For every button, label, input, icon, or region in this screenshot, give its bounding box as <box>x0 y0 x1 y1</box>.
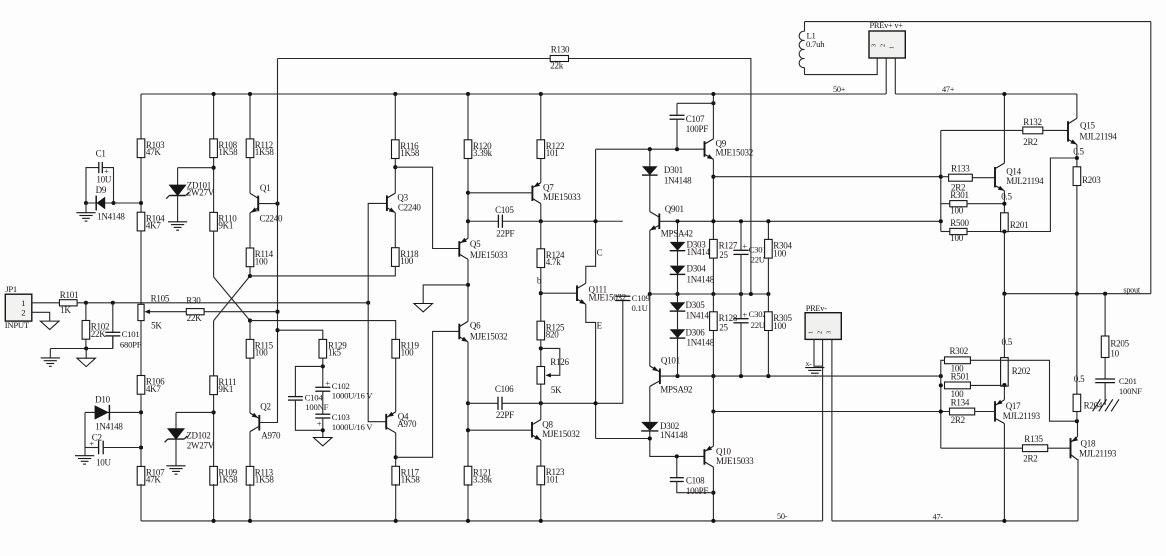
svg-text:3: 3 <box>826 331 833 334</box>
svg-text:47K: 47K <box>146 475 162 485</box>
svg-text:101: 101 <box>546 474 559 484</box>
wire L1 bottom to PREv+ pin1 <box>805 58 878 75</box>
capacitor C1 <box>86 168 99 203</box>
wire R132 to Q15 base <box>1043 129 1068 131</box>
resistor R116 <box>392 140 400 159</box>
node junction bottom rail Q10 <box>711 519 715 523</box>
node junction Q10 emitter wire <box>711 409 715 413</box>
svg-text:INPUT: INPUT <box>5 320 30 330</box>
resistor R123 <box>537 466 545 485</box>
wire ground tap <box>423 285 468 304</box>
wire positive rail 47+ segment y=94 <box>895 93 1077 95</box>
wire R135 feed from left column <box>941 447 1023 449</box>
wire R127 to mid <box>712 258 714 294</box>
svg-text:C301: C301 <box>749 244 767 254</box>
svg-text:C107: C107 <box>686 114 705 124</box>
node junction R129 wire <box>275 328 279 332</box>
resistor R115 <box>246 339 254 358</box>
svg-text:1K58: 1K58 <box>255 147 275 157</box>
node junction bottom rail Q17 <box>1002 519 1006 523</box>
wire D302 to Q10 base corner <box>650 431 705 457</box>
svg-text:1k5: 1k5 <box>328 348 342 358</box>
wire R123 to bottom rail <box>540 484 542 521</box>
node junction R102 ground <box>84 346 88 350</box>
svg-text:E: E <box>597 320 603 330</box>
wire crossover diagonal left-to-right <box>214 277 250 321</box>
wire lower driver rail y=411.5 <box>713 411 949 413</box>
svg-text:C201: C201 <box>1119 376 1137 386</box>
svg-text:1000U/16 V: 1000U/16 V <box>332 390 374 400</box>
resistor R135 <box>1023 445 1048 452</box>
diode D304 <box>670 266 686 275</box>
svg-text:MPSA42: MPSA42 <box>661 229 693 239</box>
transistor Q10 (PNP MJE15033) <box>704 446 713 451</box>
wire R119 to Q4 emitter <box>395 358 397 412</box>
node junction diode chain top <box>675 219 679 223</box>
wire R205 to C201 <box>1104 358 1106 380</box>
svg-text:1K58: 1K58 <box>400 148 420 158</box>
wire Q2 base to feedback column x=277.5 <box>259 421 277 423</box>
svg-text:C105: C105 <box>495 205 514 215</box>
svg-text:D10: D10 <box>95 395 110 405</box>
wire bias mid y=294 <box>650 293 769 295</box>
wire Q9 emitter to driver wire <box>712 159 714 239</box>
wire R130 left segment y=58.5 <box>278 58 551 60</box>
node junction D302 E-column tap <box>648 436 652 440</box>
wire JP1 pin1 to R101 <box>32 302 60 304</box>
resistor R130 <box>550 56 568 62</box>
zener diode ZD101 <box>169 185 185 196</box>
resistor R128 <box>710 312 718 331</box>
wire D304 to mid <box>677 274 679 294</box>
wire positive rail 50+ segment y=94 <box>141 93 886 95</box>
wire column R112 top <box>249 94 251 139</box>
wire R118 bottom to crossover node <box>250 266 395 276</box>
node junction R203 column spout <box>1075 292 1079 296</box>
wire R110 down to crossover <box>213 231 215 277</box>
resistor R202 <box>1001 358 1009 387</box>
wire PREv+ pin2 to 50+ rail <box>885 58 887 94</box>
wire Q8 emitter to R123 <box>540 440 542 466</box>
wire ZD102 to column B <box>176 411 214 413</box>
node junction R201 bottom <box>1002 229 1006 233</box>
capacitor C108 <box>676 456 678 477</box>
svg-text:Q2: Q2 <box>260 402 271 412</box>
node junction Q18 emitter R204 R302 <box>1075 419 1079 423</box>
svg-text:0.5: 0.5 <box>1001 191 1012 201</box>
node junction bottom rail R113 <box>248 519 252 523</box>
node junction rail R112 <box>248 92 252 96</box>
svg-text:b: b <box>537 276 542 286</box>
wire R125 to R126 <box>540 340 542 367</box>
wire Q901 emitter down to mid node <box>649 230 651 294</box>
node junction R304/R305 mid <box>766 292 770 296</box>
node junction bias wire left column <box>939 219 943 223</box>
wire R126 wiper loop <box>541 348 560 375</box>
wire R105 to R106 <box>140 321 142 376</box>
svg-text:MJL21193: MJL21193 <box>1079 449 1117 459</box>
node junction Q111 base <box>539 291 543 295</box>
svg-text:100: 100 <box>255 348 269 358</box>
wire rail to R122 <box>540 94 542 140</box>
node junction R130 feedback at mid <box>749 292 753 296</box>
node junction diode chain bottom Q101 base <box>675 374 679 378</box>
node junction C107 bottom <box>675 147 679 151</box>
node junction R133 left <box>939 175 943 179</box>
wire JP1 pin2 to ground <box>32 312 50 321</box>
svg-text:0.1U: 0.1U <box>632 303 649 313</box>
wire Q14 collector column from 47+ rail <box>1003 94 1005 163</box>
diode D306 <box>670 329 686 338</box>
ground triangle VAS mid <box>414 304 433 312</box>
node junction ZD101 wire <box>212 166 216 170</box>
svg-text:2R2: 2R2 <box>1023 137 1037 147</box>
svg-text:ZD102: ZD102 <box>186 431 210 441</box>
wire R203col spout to R204 <box>1076 294 1078 395</box>
ground earth below input bus <box>41 357 60 359</box>
node junction C101 top <box>111 301 115 305</box>
wire Q9 collector to rail <box>712 94 714 139</box>
wire Q14 emitter to R301 node <box>1003 191 1005 213</box>
node junction R134 wire left column <box>939 409 943 413</box>
wire Q901 base right y=221.3 <box>659 220 941 222</box>
svg-text:Q3: Q3 <box>397 192 408 202</box>
resistor R108 <box>210 139 218 158</box>
wire D10 left to C2 net <box>84 412 86 447</box>
node junction C105 wire at R124 <box>539 219 543 223</box>
svg-text:MJE15033: MJE15033 <box>716 456 754 466</box>
wire R102 bottom <box>85 339 87 348</box>
potentiometer R105 <box>138 304 144 320</box>
node junction Q9 collector C107 <box>711 101 715 105</box>
wire R302 right loop to Q18 emitter node <box>970 360 1077 421</box>
svg-text:22U: 22U <box>751 255 766 265</box>
wire analog ground bus y=348.5 <box>50 348 113 350</box>
node junction Q901 base wire at R127 <box>711 219 715 223</box>
wire R113 to bottom rail <box>249 484 251 521</box>
node junction rail R116 <box>393 92 397 96</box>
svg-text:10: 10 <box>1110 348 1119 358</box>
wire signal net R101 to Q3/Q4 bases y=302.8 <box>77 302 368 304</box>
wire R130 right segment to x=750.9 <box>569 59 751 294</box>
svg-text:R501: R501 <box>951 372 970 382</box>
wire R112 to Q1 collector <box>249 158 251 194</box>
ground chassis hatch for C201 <box>1093 399 1101 411</box>
wire output column spout to R202 <box>1003 294 1005 358</box>
svg-text:1N4148: 1N4148 <box>687 338 715 348</box>
capacitor C103 electrolytic <box>315 413 330 415</box>
node junction C301 top <box>739 219 743 223</box>
wire PREv- pin2 to 50- rail <box>822 339 824 521</box>
transistor Q111 (NPN MJE15032) <box>577 283 586 288</box>
svg-text:1K58: 1K58 <box>401 475 421 485</box>
capacitor C107 <box>676 103 678 115</box>
svg-text:100: 100 <box>773 321 787 331</box>
resistor R118 <box>392 248 400 267</box>
ground JP1 pin2 triangle <box>40 321 59 329</box>
resistor R107 <box>137 466 145 485</box>
wire R501 right to Q17 emitter node <box>970 384 1004 386</box>
node junction R114/R118/crossover <box>248 274 252 278</box>
svg-text:Q6: Q6 <box>470 321 481 331</box>
wire rail to R120 <box>467 94 469 140</box>
svg-text:C1: C1 <box>96 149 106 159</box>
svg-text:Q15: Q15 <box>1080 121 1095 131</box>
wire right border feedback x=1150.8 <box>1150 22 1152 294</box>
node junction C302 bottom <box>739 374 743 378</box>
wire PREv+ pin3 to 47+ rail <box>894 58 896 94</box>
svg-text:Q17: Q17 <box>1006 401 1021 411</box>
wire Q3 emitter to R118 <box>394 213 396 248</box>
wire C106 right to C109 column bottom <box>502 301 623 404</box>
svg-text:R205: R205 <box>1110 338 1129 348</box>
svg-text:D304: D304 <box>687 263 707 273</box>
wire Q6 emitter down through C106/Q8 nodes <box>467 342 469 466</box>
svg-text:R128: R128 <box>719 313 738 323</box>
wire negative rail 50- segment y=520.9 <box>141 520 823 522</box>
wire Q111 emitter staircase to E node <box>586 304 596 438</box>
ground earth for D9 <box>85 203 87 212</box>
svg-text:1: 1 <box>21 298 25 308</box>
svg-text:4.7k: 4.7k <box>546 257 562 267</box>
resistor R109 <box>210 466 218 485</box>
resistor R122 <box>537 140 545 159</box>
ground earth PREv- x- <box>805 367 824 369</box>
svg-text:820: 820 <box>546 330 560 340</box>
transistor Q901 (NPN MPSA42) <box>650 212 660 218</box>
wire PREv- pin3 to 47- rail <box>831 339 833 521</box>
node junction C106 wire at Q8 collector <box>539 401 543 405</box>
wire Q8 base y=430.2 <box>468 429 532 431</box>
resistor R301 <box>941 203 950 205</box>
svg-text:MJE15032: MJE15032 <box>470 331 508 341</box>
svg-text:10U: 10U <box>96 457 112 467</box>
svg-text:Q14: Q14 <box>1006 167 1021 177</box>
svg-text:+: + <box>325 378 330 388</box>
node junction bias wire to output R network <box>939 374 943 378</box>
svg-text:1K58: 1K58 <box>218 147 238 157</box>
svg-text:R301: R301 <box>950 190 969 200</box>
wire R121 to bottom rail <box>467 484 469 521</box>
wire R129 bottom to cap bank <box>322 358 324 387</box>
node junction R126 wiper return <box>539 346 543 350</box>
wire Q18 emitter to R204 node <box>1077 421 1079 437</box>
svg-text:22k: 22k <box>550 61 564 71</box>
svg-text:9K1: 9K1 <box>218 221 233 231</box>
resistor R30 <box>186 309 204 315</box>
svg-text:PREv+ v+: PREv+ v+ <box>870 21 904 30</box>
svg-text:3: 3 <box>871 44 878 47</box>
node junction rail Q9 <box>711 92 715 96</box>
svg-text:PREv-: PREv- <box>806 304 828 313</box>
svg-text:1K58: 1K58 <box>218 475 238 485</box>
wire ZD101 to ground <box>177 196 179 222</box>
ground triangle cap bank <box>314 438 333 446</box>
wire Q101 collector to D302 <box>649 386 651 422</box>
node junction Q5/Q6 collectors ground tap <box>466 283 470 287</box>
node junction Q4 collector branch <box>394 455 398 459</box>
wire Q101 base right y=376.1 <box>660 375 941 377</box>
wire Q4 collector to R117 and Q6-base branch <box>395 433 397 467</box>
wire C201 to chassis ground <box>1104 383 1106 405</box>
wire output spout y=293.7 <box>1004 293 1150 295</box>
svg-text:JP1: JP1 <box>5 284 17 294</box>
wire Q901/Q101 emitter link <box>649 294 651 366</box>
svg-text:2: 2 <box>21 307 25 317</box>
node junction Q7 base wire <box>466 191 470 195</box>
ground triangle below R102 <box>85 349 87 359</box>
node junction Q1 base on x=277.5 <box>275 202 279 206</box>
svg-text:D301: D301 <box>664 165 683 175</box>
node junction Q8 base wire <box>466 428 470 432</box>
wire Q3 collector branch to Q5 base <box>395 167 459 248</box>
wire upper driver rail y=176.7 <box>713 176 940 178</box>
svg-text:+: + <box>742 241 747 251</box>
svg-text:47-: 47- <box>933 513 944 522</box>
resistor R127 <box>710 239 718 258</box>
svg-text:100: 100 <box>401 348 415 358</box>
transistor Q4 (PNP A970) <box>386 412 396 418</box>
node junction signal at Q3Q4 base column <box>366 301 370 305</box>
wire Q7 base y=192.8 <box>468 192 532 194</box>
svg-text:D305: D305 <box>686 300 706 310</box>
svg-text:MJE15033: MJE15033 <box>543 192 581 202</box>
wire Q5 collector to node <box>467 259 469 321</box>
svg-text:Q10: Q10 <box>716 446 731 456</box>
capacitor C201 <box>1095 378 1115 380</box>
svg-text:R101: R101 <box>60 290 79 300</box>
wire crossover diagonal right-to-left <box>214 276 250 321</box>
wire R201 bottom node <box>1003 232 1005 294</box>
wire feedback column x=277.5 R130 to Q2 base <box>277 59 279 423</box>
wire C104 branch top <box>295 366 322 396</box>
transistor Q7 (PNP MJE15033) <box>532 183 540 188</box>
wire R116 to Q3 collector with branch node <box>394 159 396 194</box>
resistor R113 <box>246 466 254 485</box>
wire C-node to Q9 base y=149.2 <box>596 148 705 150</box>
svg-text:R133: R133 <box>951 163 970 173</box>
wire R117 to bottom rail <box>395 484 397 521</box>
resistor R119 <box>392 339 400 358</box>
svg-text:MJE15033: MJE15033 <box>470 250 508 260</box>
svg-text:C102: C102 <box>332 381 350 391</box>
svg-text:1N4148: 1N4148 <box>664 176 692 186</box>
wire ZD101 to column B <box>178 167 214 169</box>
connector JP1 <box>5 294 32 321</box>
resistor R121 <box>464 466 472 485</box>
svg-text:4K7: 4K7 <box>146 384 161 394</box>
svg-text:C108: C108 <box>686 475 705 485</box>
wire C104 bottom <box>295 400 322 430</box>
svg-text:3.39k: 3.39k <box>473 148 493 158</box>
transistor Q3 (NPN C2240) <box>387 193 395 198</box>
resistor R133 <box>949 174 973 181</box>
svg-text:1K: 1K <box>60 305 71 315</box>
svg-text:100PF: 100PF <box>686 124 709 134</box>
node junction C2 wire <box>139 445 143 449</box>
resistor R203 <box>1073 167 1081 186</box>
resistor R500 <box>941 231 950 233</box>
node junction ZD102 wire <box>212 410 216 414</box>
svg-text:1: 1 <box>889 46 896 49</box>
svg-text:1: 1 <box>808 331 815 334</box>
resistor R106 <box>137 376 145 395</box>
svg-text:9K1: 9K1 <box>218 384 233 394</box>
wire R115 to Q2 emitter <box>249 358 251 413</box>
transistor Q2 (PNP A970) <box>250 413 259 419</box>
svg-text:R500: R500 <box>950 218 969 228</box>
node junction D301 top <box>648 147 652 151</box>
capacitor C106 <box>497 397 499 410</box>
wire PREv- pin1 to signal ground <box>814 339 823 366</box>
svg-text:0.5: 0.5 <box>1002 337 1013 347</box>
svg-text:C106: C106 <box>495 384 514 394</box>
svg-text:25: 25 <box>719 322 728 332</box>
svg-text:100NF: 100NF <box>305 402 328 412</box>
node junction R304 top <box>766 219 770 223</box>
wire R304 to mid <box>767 258 769 294</box>
resistor R204 <box>1073 394 1081 411</box>
transistor Q15 (NPN MJL21194) <box>1068 118 1077 124</box>
transistor Q5 (PNP MJE15033) <box>459 238 468 243</box>
wire R201 bottom to Q15 emitter riser <box>1004 158 1077 232</box>
ground earth for C2 <box>84 448 86 456</box>
wire left column x=141 rail to R103 <box>140 94 142 139</box>
node junction mid bias left <box>648 292 652 296</box>
diode D301 <box>649 149 651 166</box>
wire tail-current feed y=320.6 to R119 <box>250 321 396 340</box>
svg-text:C109: C109 <box>632 293 650 303</box>
svg-text:0.7uh: 0.7uh <box>806 39 825 49</box>
node junction R128 at bias wire <box>711 374 715 378</box>
transistor Q8 (NPN MJE15032) <box>532 420 541 425</box>
node junction Q17 emitter / R501 / R202 <box>1002 383 1006 387</box>
wire R203 to spout node <box>1076 186 1078 294</box>
svg-text:MJE15032: MJE15032 <box>716 147 754 157</box>
diode D302 <box>641 422 658 431</box>
wire C105 compensation y=221.25 <box>468 220 498 222</box>
transistor Q18 (PNP MJL21193) <box>1071 437 1078 443</box>
potentiometer R126 <box>537 367 545 385</box>
node junction crossover to R115 net <box>248 319 252 323</box>
wire Q10 emitter up to node <box>712 412 714 447</box>
node junction C108 top <box>675 454 679 458</box>
node junction Q9 emitter wire <box>711 175 715 179</box>
svg-text:C: C <box>597 247 603 257</box>
resistor R129 <box>319 339 327 358</box>
wire R301 right to Q14 emitter node <box>967 203 1004 205</box>
wire rail to R116 <box>394 94 396 140</box>
wire R106 to R107 with D10/C2 taps <box>140 394 142 466</box>
capacitor C301 electrolytic <box>740 221 742 250</box>
svg-text:5K: 5K <box>151 321 162 331</box>
wire C105 node to R124 <box>540 221 542 249</box>
node junction C105 wire left <box>466 219 470 223</box>
svg-text:47+: 47+ <box>942 85 955 94</box>
wire Q111 base y=293.2 <box>541 292 577 294</box>
wire C103 bottom to ground <box>322 418 324 437</box>
svg-text:50-: 50- <box>777 512 788 521</box>
wire D303-D304 <box>677 251 679 266</box>
svg-text:1K58: 1K58 <box>255 475 275 485</box>
wire R126 bottom to C106 node <box>540 384 542 403</box>
svg-text:100: 100 <box>950 233 964 243</box>
svg-text:R302: R302 <box>950 346 969 356</box>
node junction R205 column spout <box>1103 292 1107 296</box>
wire Q2 collector to R113 <box>249 432 251 467</box>
svg-text:R134: R134 <box>951 398 970 408</box>
node junction C301/C302 mid <box>739 292 743 296</box>
